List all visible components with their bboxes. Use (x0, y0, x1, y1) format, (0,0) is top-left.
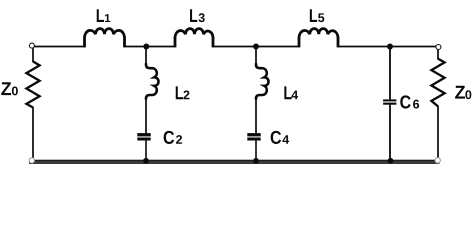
port terminal bottom-left (29, 158, 34, 163)
wire resistor to ground bus (32, 107, 34, 160)
wire terminal to resistor (32, 48, 34, 62)
label C6 (400, 95, 410, 108)
label L5 (310, 9, 317, 22)
label C4 (271, 131, 281, 144)
ground bus bottom rail (29, 160, 440, 164)
wire C6 to ground bus (389, 105, 391, 160)
wire node to L4 (255, 47, 257, 65)
node junction C6 at ground (388, 158, 394, 164)
port terminal top-left (29, 43, 34, 48)
wire C4 to ground bus (255, 140, 257, 160)
wire resistor to ground bus (437, 106, 439, 161)
label L4 (284, 86, 291, 99)
resistor Z0 right (431, 49, 471, 160)
wire top rail segment 4 (338, 46, 437, 48)
node junction C4 at ground (253, 158, 259, 164)
capacitor C2 (137, 131, 182, 160)
node junction at L2 branch (143, 44, 149, 50)
wire node to C6 (389, 47, 391, 100)
wire terminal to resistor (437, 49, 439, 59)
inductor L4 (256, 47, 298, 134)
wire L2 to C2 (145, 99, 147, 134)
node junction C2 at ground (143, 158, 149, 164)
wire top rail segment 2 (125, 46, 176, 48)
wire C2 to ground bus (145, 140, 147, 160)
inductor L2 (146, 47, 189, 134)
label C2 (164, 131, 174, 144)
inductor L5 (299, 9, 338, 47)
label L3 (190, 9, 197, 22)
inductor L3 (175, 9, 213, 47)
wire L4 to C4 (255, 99, 257, 134)
wire node to L2 (145, 47, 147, 65)
label L2 (176, 86, 183, 99)
node junction at L4 branch (253, 44, 259, 50)
label Z0 (right) (455, 86, 465, 99)
port terminal top-right (436, 45, 441, 50)
resistor Z0 left (1, 48, 39, 160)
capacitor C6 (383, 47, 419, 161)
inductor L1 (85, 9, 125, 47)
label Z0 (left) (1, 82, 11, 95)
capacitor C4 (247, 131, 289, 160)
wire top rail segment 1 (34, 46, 85, 48)
wire top rail segment 3 (213, 46, 299, 48)
label L1 (97, 9, 104, 22)
port terminal bottom-right (435, 158, 440, 163)
node junction at C6 branch (387, 44, 393, 50)
